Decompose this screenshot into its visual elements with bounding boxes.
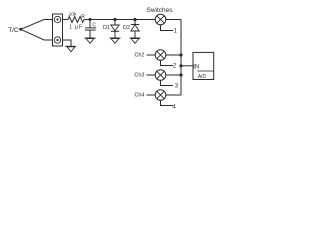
wire switch 1 to bus: [166, 19, 181, 21]
divider line above A/D label: [198, 70, 214, 72]
wire junction down to capacitor: [89, 20, 91, 28]
svg-text:D2: D2: [123, 25, 130, 31]
svg-text:Ch3: Ch3: [134, 73, 144, 79]
diode D1: [111, 25, 119, 31]
node D2 junction: [133, 18, 136, 21]
wire block to resistor: [63, 19, 69, 21]
switch Ch4: [155, 90, 166, 101]
wire rail down to D1: [114, 20, 116, 26]
svg-text:C: C: [92, 22, 96, 28]
node D1 junction: [113, 18, 116, 21]
ground below capacitor: [85, 38, 96, 43]
wire T/C upper lead: [21, 20, 53, 30]
svg-text:1: 1: [69, 25, 72, 31]
node Ch3 bus junction: [179, 73, 182, 76]
svg-text:IN: IN: [193, 64, 199, 70]
svg-text:Switches: Switches: [146, 7, 173, 14]
switch Ch2: [155, 50, 166, 61]
svg-text:Ch4: Ch4: [134, 93, 144, 99]
svg-text:µF: µF: [75, 25, 83, 31]
svg-text:A/D: A/D: [198, 74, 207, 80]
A/D converter block U1: [193, 52, 214, 79]
svg-text:Ch2: Ch2: [134, 53, 144, 59]
wire D2 to ground: [134, 31, 136, 38]
wire Ch3 lead: [147, 74, 156, 76]
diode D2: [131, 25, 139, 32]
node Ch2 bus junction: [179, 53, 182, 56]
terminal 2 of block: [54, 37, 60, 43]
wire main rail resistor to switch 1: [84, 19, 155, 21]
svg-text:1: 1: [174, 28, 178, 34]
resistor R 10k: [68, 17, 84, 23]
wire T/C lower lead: [21, 29, 53, 40]
switch Ch3: [155, 70, 166, 81]
node A/D input branch junction: [179, 64, 182, 67]
wire Ch4 switch to bus: [166, 94, 181, 96]
wire analog bus vertical: [180, 20, 182, 96]
node T/C input junction: [19, 28, 22, 31]
wire Ch3 control stub: [161, 80, 174, 85]
wire switch 1 control stub: [161, 25, 174, 31]
wire Ch4 lead: [147, 94, 156, 96]
svg-text:2: 2: [173, 63, 177, 69]
connector terminal block J1: [53, 14, 63, 46]
svg-text:T/C: T/C: [8, 27, 19, 34]
wire Ch4 control stub: [161, 100, 174, 105]
ground below terminal block: [65, 46, 76, 51]
wire Ch2 control stub: [161, 60, 174, 65]
wire block lower terminal to ground: [63, 40, 72, 46]
svg-text:10k: 10k: [69, 11, 77, 17]
svg-text:D1: D1: [103, 25, 110, 31]
node resistor-capacitor junction: [89, 18, 92, 21]
terminal 1 of block: [54, 16, 60, 22]
wire Ch2 switch to bus: [166, 54, 181, 56]
svg-text:3: 3: [175, 84, 179, 90]
svg-text:4: 4: [173, 104, 177, 110]
ground below D1: [110, 38, 121, 43]
switch 1: [155, 14, 166, 25]
wire capacitor to ground: [89, 30, 91, 38]
ground below D2: [130, 38, 141, 43]
capacitor C 1uF: [85, 28, 96, 30]
wire bus to A/D IN pin: [181, 65, 193, 67]
wire Ch3 switch to bus: [166, 74, 181, 76]
wire Ch2 lead: [147, 54, 156, 56]
wire D1 to ground: [114, 31, 116, 38]
wire rail down to D2: [134, 20, 136, 25]
